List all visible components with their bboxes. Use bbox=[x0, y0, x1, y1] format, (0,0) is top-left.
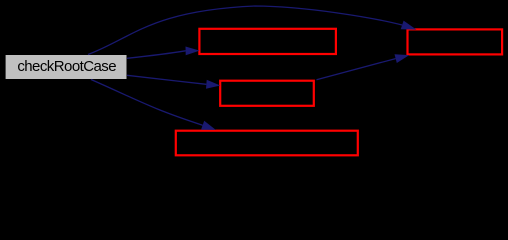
edge checkRootCase to box4 (curving down) bbox=[91, 80, 203, 126]
red box3 (right callee) bbox=[408, 29, 503, 54]
svg-text:checkRootCase: checkRootCase bbox=[17, 58, 116, 75]
node checkRootCase (gray filled) bbox=[6, 55, 127, 79]
arrowhead into box2 bbox=[206, 80, 220, 89]
arrowhead into box3 top bbox=[401, 21, 417, 30]
edge checkRootCase to box1 bbox=[127, 51, 186, 59]
red box2 (middle callee) bbox=[220, 81, 314, 106]
arrowhead into box4 top bbox=[201, 121, 216, 130]
arrowhead into box1 bbox=[186, 47, 200, 56]
edge box2 to box3 bbox=[317, 59, 396, 80]
edge checkRootCase to box3 (over the top) bbox=[88, 6, 402, 55]
edge checkRootCase to box2 bbox=[127, 75, 206, 84]
red box1 (top middle callee) bbox=[199, 29, 336, 54]
red box4 (bottom callee) bbox=[176, 131, 358, 156]
arrowhead into box3 bottom-left bbox=[395, 54, 410, 63]
